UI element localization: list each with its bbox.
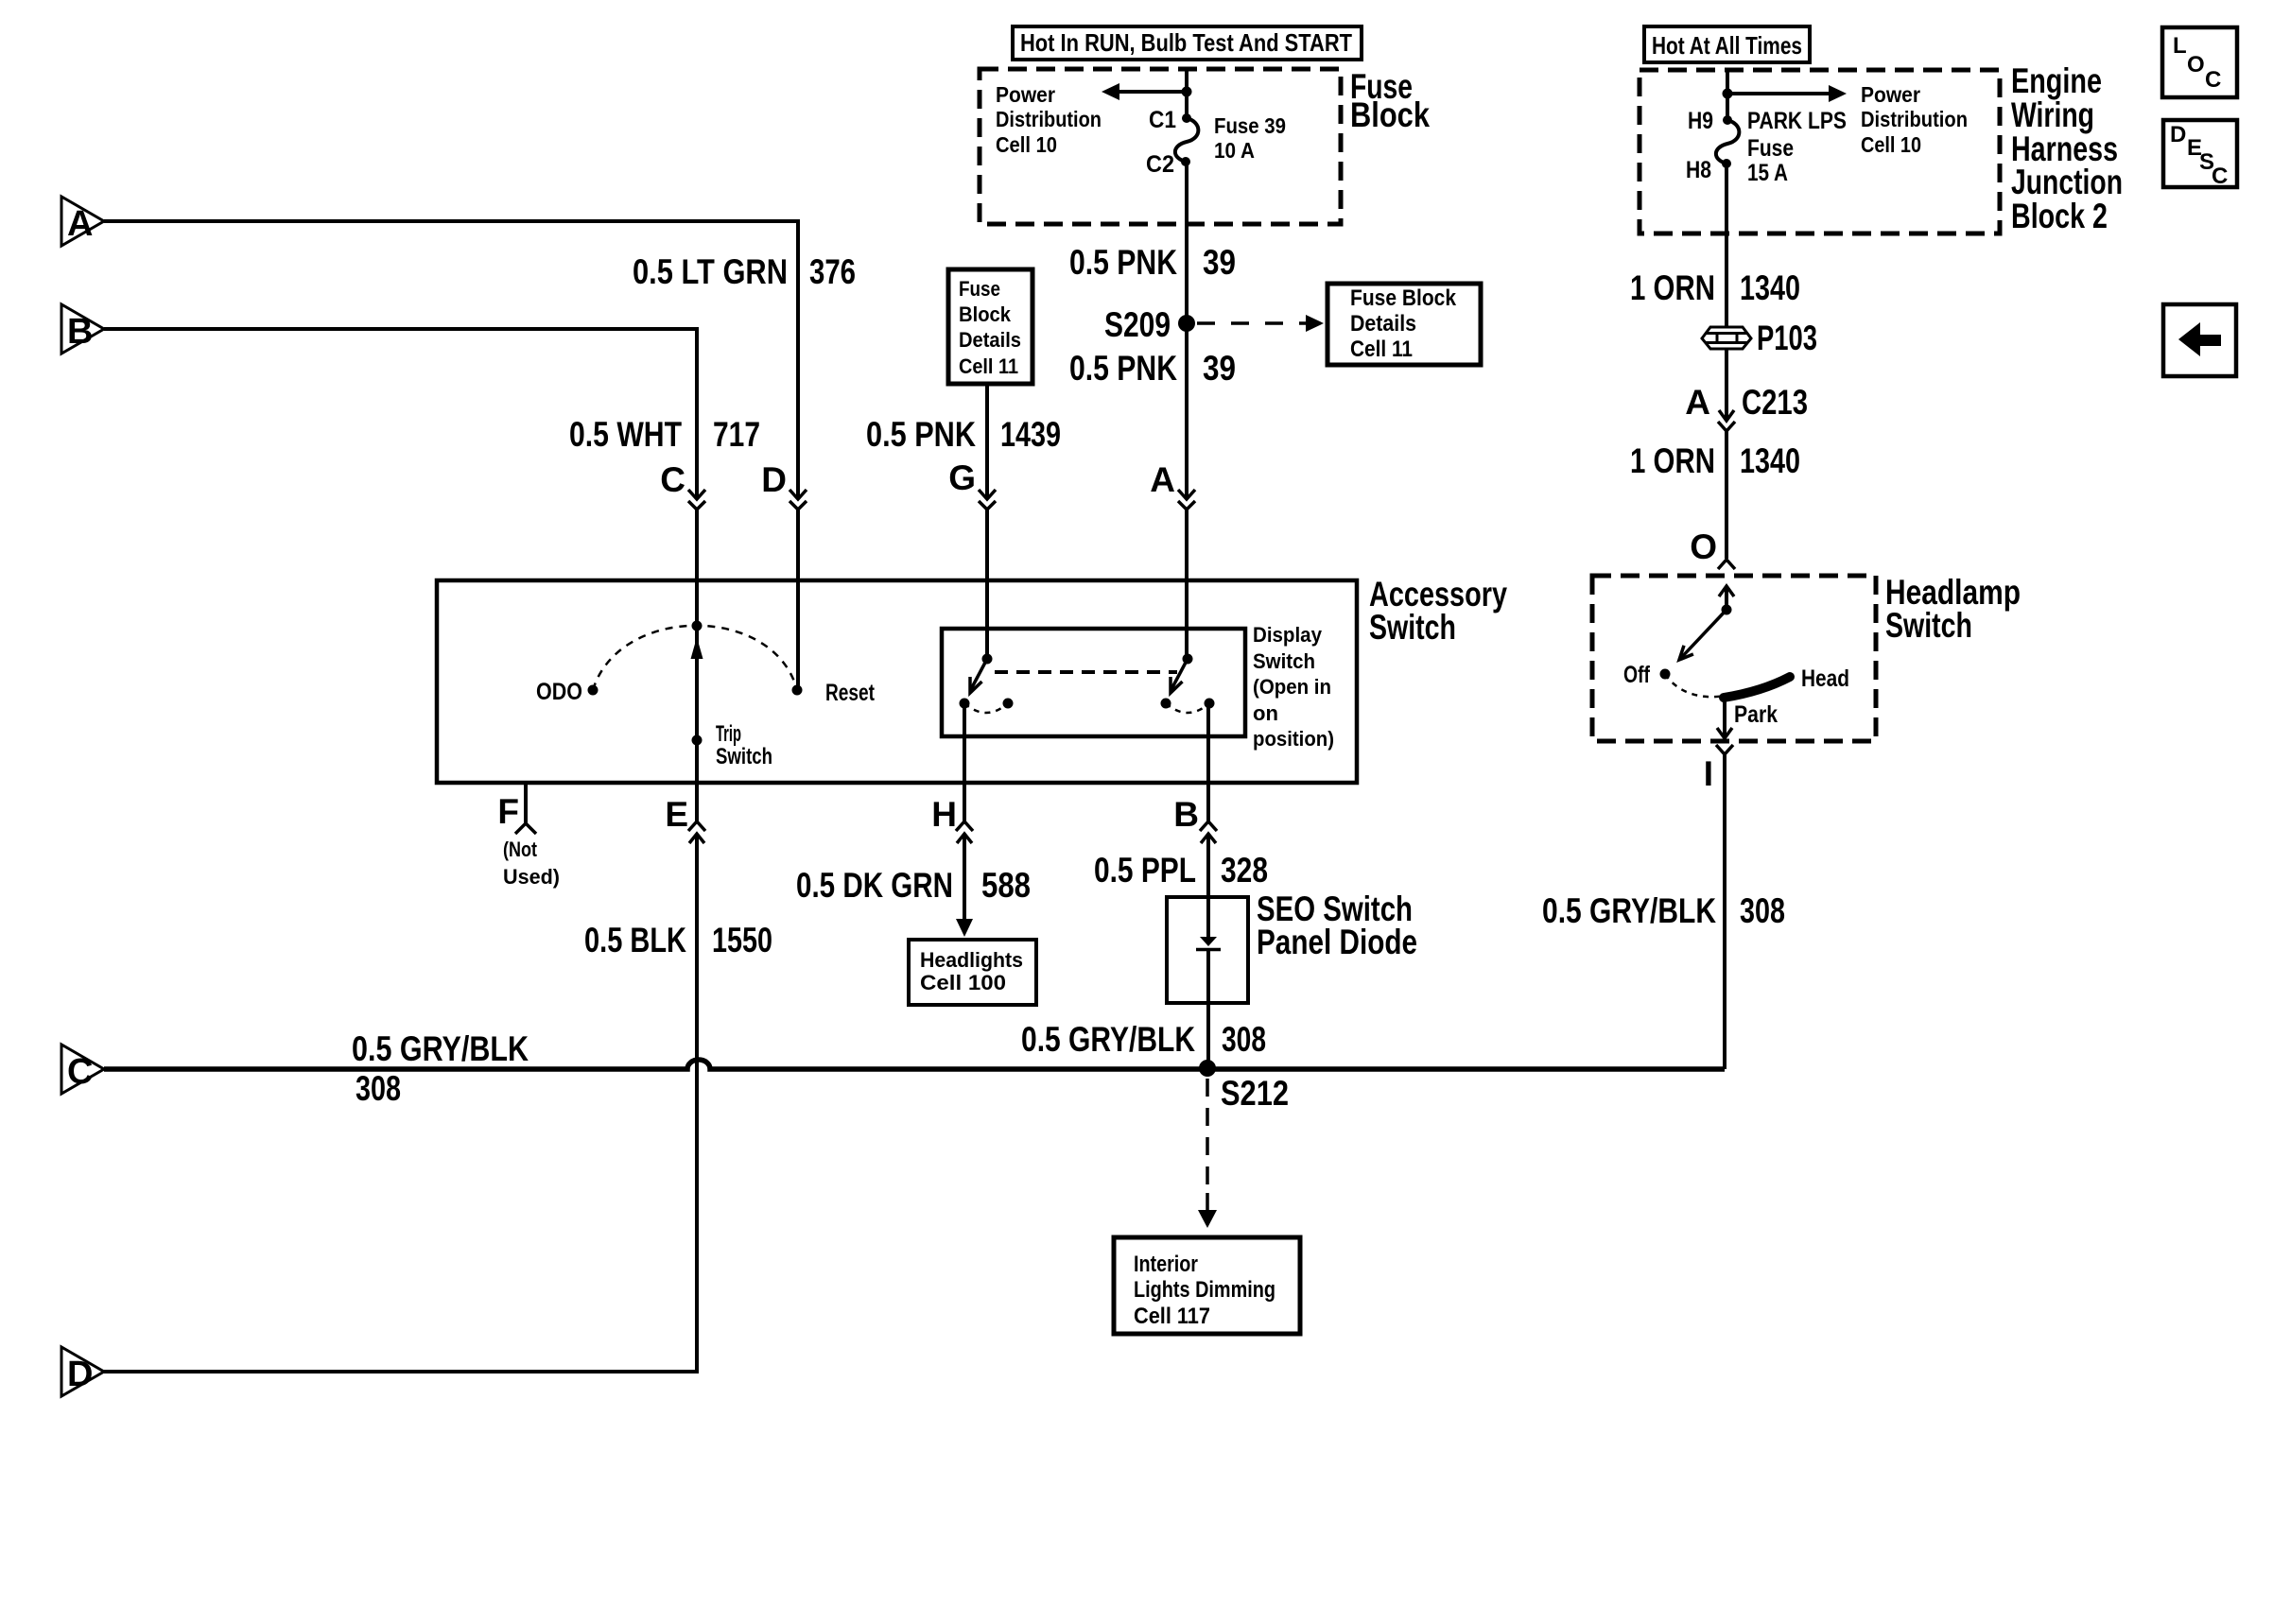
F chevron [515,823,536,834]
wire G into display switch left contact [985,510,989,657]
svg-text:C2: C2 [1146,151,1174,178]
wire B down from right contact [1206,703,1210,821]
svg-text:Fuse 39: Fuse 39 [1214,113,1286,138]
wire from details box down (G branch) [985,384,989,499]
svg-text:39: 39 [1203,243,1236,282]
wire diode to S212 [1206,949,1210,1068]
svg-text:Fuse Block: Fuse Block [1350,285,1457,311]
svg-text:C: C [660,460,685,499]
display switch left lower dots [960,699,970,709]
node S212 [1199,1060,1216,1077]
svg-text:Junction: Junction [2011,163,2123,201]
engine harness dashed box [1640,70,2000,233]
dashed arc Off to Park [1665,674,1725,697]
connector C213 marks [1719,410,1734,421]
svg-text:Interior: Interior [1134,1252,1198,1277]
svg-text:0.5 PPL: 0.5 PPL [1094,851,1196,890]
svg-text:Switch: Switch [1369,608,1456,647]
connector I chevron below headlamp box [1716,745,1733,754]
display switch inner box [942,629,1245,736]
headlamp switch dashed box [1592,576,1876,741]
wire 737 from E down to D corner [104,834,697,1372]
svg-text:B: B [67,312,93,352]
svg-text:G: G [948,458,976,497]
wire 844 into accessory box to Reset [796,510,800,686]
headlamp blade arrow to Off [1679,610,1726,660]
fuse wire top with junction and left arrow [1185,70,1189,118]
DESC box [2163,120,2237,187]
dashed arc left contact [964,703,1008,713]
connector E marks below accessory box [688,821,705,831]
trip switch up arrow on wire 737 [691,637,703,659]
svg-text:Head: Head [1801,665,1849,692]
connector A marks on fuse wire [1178,490,1195,499]
svg-text:308: 308 [1222,1020,1266,1059]
svg-text:0.5 PNK: 0.5 PNK [1069,349,1177,388]
fuse 39 element (S-curve) [1182,113,1191,123]
park wire down with arrow [1723,696,1726,738]
dashed arc ODO to Reset through node [593,626,797,690]
svg-text:C1: C1 [1149,107,1176,133]
svg-text:PARK LPS: PARK LPS [1747,108,1847,134]
svg-text:F: F [497,792,519,831]
svg-text:376: 376 [809,252,856,291]
arrow wire H to headlights box [963,834,966,919]
dashed arrow S209 to details box 2 [1197,321,1309,325]
display switch right blade arrow [1171,659,1188,691]
wire B into diode box [1206,834,1210,937]
svg-text:1340: 1340 [1740,268,1800,307]
svg-text:0.5 PNK: 0.5 PNK [866,415,976,454]
svg-text:Switch: Switch [1253,649,1315,673]
dashed arc right contact [1166,703,1209,713]
svg-text:Lights Dimming: Lights Dimming [1134,1277,1275,1303]
display switch right top contact dot [1183,654,1193,665]
svg-text:308: 308 [1740,891,1785,930]
wire fuse to S209 to A marks [1185,162,1189,499]
svg-text:Power: Power [996,82,1055,107]
svg-text:0.5 GRY/BLK: 0.5 GRY/BLK [352,1029,529,1068]
display switch left top contact dot [982,654,993,665]
svg-text:Engine: Engine [2011,61,2102,100]
up arrow into headlamp switch [1719,586,1734,596]
svg-text:Details: Details [1350,311,1416,337]
svg-text:Used): Used) [503,865,560,889]
LOC box [2162,27,2237,97]
svg-text:0.5 WHT: 0.5 WHT [569,415,682,454]
bold Head contact arc [1724,677,1790,698]
svg-text:Cell 11: Cell 11 [1350,337,1413,362]
svg-text:ODO: ODO [536,679,582,705]
interior lights dimming box [1114,1237,1300,1334]
svg-text:Park: Park [1734,701,1778,728]
svg-text:A: A [67,204,93,244]
svg-text:10 A: 10 A [1214,138,1255,163]
connector A (triangle) [61,197,104,246]
park lps fuse element [1723,115,1732,125]
svg-text:H: H [931,795,957,834]
back arrow box [2163,304,2236,376]
headlights box [909,940,1036,1005]
svg-text:S212: S212 [1221,1074,1289,1113]
dashed wire S212 down [1206,1079,1209,1193]
wire from A to vertical 844 [104,221,798,499]
display switch left blade arrow [970,659,987,691]
connector B marks [1200,821,1217,831]
svg-text:Hot In RUN, Bulb Test And STAR: Hot In RUN, Bulb Test And START [1020,28,1352,57]
headlamp pivot dot [1722,605,1732,615]
wire 737 into accessory box to node [695,510,699,624]
svg-text:Off: Off [1623,662,1651,688]
svg-text:H8: H8 [1686,157,1711,183]
svg-text:0.5 GRY/BLK: 0.5 GRY/BLK [1542,891,1716,930]
svg-text:Cell 117: Cell 117 [1134,1304,1210,1329]
svg-text:S209: S209 [1104,305,1171,344]
svg-text:I: I [1704,754,1713,793]
svg-text:Reset: Reset [825,680,876,706]
svg-text:Cell 10: Cell 10 [1861,132,1921,157]
svg-text:Distribution: Distribution [1861,107,1968,131]
svg-text:E: E [665,795,688,834]
svg-text:1439: 1439 [1000,415,1061,454]
svg-text:A: A [1685,383,1710,422]
svg-text:Details: Details [959,328,1021,352]
svg-text:Block: Block [959,302,1012,326]
svg-text:Switch: Switch [1885,606,1972,645]
svg-text:717: 717 [713,415,760,454]
svg-text:Wiring: Wiring [2011,95,2094,134]
svg-text:0.5 BLK: 0.5 BLK [584,921,686,959]
svg-text:A: A [1150,460,1175,499]
svg-text:on: on [1253,701,1278,725]
wire H down from left contact [963,703,966,821]
fuse block dashed box [980,69,1341,224]
svg-text:L: L [2173,33,2187,59]
Off dot [1660,669,1671,680]
svg-text:position): position) [1253,727,1334,751]
svg-text:H9: H9 [1688,108,1713,134]
svg-text:B: B [1173,795,1199,834]
svg-text:(Not: (Not [503,838,538,861]
display switch right lower dots [1161,699,1171,709]
svg-text:0.5 LT GRN: 0.5 LT GRN [633,252,788,291]
svg-text:Panel Diode: Panel Diode [1257,923,1417,961]
svg-text:1550: 1550 [712,921,772,959]
connector O chevron [1718,560,1735,569]
wire C213 to O terminal [1725,431,1728,559]
SEO diode box [1167,897,1248,1003]
dashed line between display switch blades [995,670,1177,674]
diode symbol [1200,937,1217,946]
connector G marks [979,490,996,499]
connector D (triangle) bottom left [61,1347,104,1396]
svg-text:0.5 DK GRN: 0.5 DK GRN [796,866,953,905]
svg-text:Hot At All Times: Hot At All Times [1652,31,1802,60]
horizontal wire from C triangle with hop, to right corner [104,1060,1725,1069]
svg-text:0.5 GRY/BLK: 0.5 GRY/BLK [1021,1020,1195,1059]
ODO dot [588,685,599,696]
svg-text:Distribution: Distribution [996,107,1102,131]
svg-text:D: D [761,460,787,499]
accessory switch box [437,580,1357,783]
svg-text:Power: Power [1861,82,1920,107]
svg-text:Trip: Trip [716,721,741,747]
wire top in engine box with junction [1726,70,1729,120]
svg-text:308: 308 [356,1069,401,1108]
back arrow icon [2178,322,2200,356]
wire P103 to C213 [1725,349,1728,421]
grommet P103 [1702,327,1751,349]
connector C (triangle) [61,1045,104,1094]
svg-text:C: C [2205,67,2221,93]
connector B (triangle) [61,304,104,354]
wire 737 node to trip dot to box bottom [695,626,699,821]
svg-text:Block: Block [1350,95,1430,134]
arrow right to power distribution [1727,92,1829,95]
svg-text:328: 328 [1221,851,1268,890]
svg-text:1 ORN: 1 ORN [1630,268,1715,307]
svg-text:0.5 PNK: 0.5 PNK [1069,243,1177,282]
connector C in-line marks on wire 737 [688,490,705,499]
hot at all times label box [1644,26,1810,62]
svg-text:D: D [67,1355,93,1394]
hot in run label box [1013,26,1362,60]
svg-text:Headlights: Headlights [920,948,1023,972]
Reset dot [792,685,803,696]
svg-text:O: O [1690,527,1717,566]
svg-text:Switch: Switch [716,744,772,769]
wire A into display switch right contact [1185,510,1189,657]
trip switch dot [692,735,703,746]
wire from B to vertical 737 [104,329,697,499]
svg-text:588: 588 [981,866,1031,905]
svg-text:Cell 10: Cell 10 [996,132,1057,157]
svg-text:Block 2: Block 2 [2011,197,2108,235]
node S209 [1178,315,1195,332]
node dot (trip switch top) [692,621,703,631]
svg-text:O: O [2187,52,2205,78]
svg-text:(Open in: (Open in [1253,675,1331,699]
connector D in-line marks on wire 844 [789,490,807,499]
wire H8 down to P103 [1725,164,1728,326]
F stub below accessory box [524,783,528,823]
svg-text:Fuse: Fuse [959,277,1000,301]
connector H marks [956,821,973,831]
svg-text:39: 39 [1203,349,1236,388]
svg-text:1 ORN: 1 ORN [1630,441,1715,480]
wire I down to corner joining horizontal wire [1723,754,1726,1069]
fuse block details box 2 [1327,284,1481,365]
svg-text:C: C [67,1052,93,1092]
svg-text:1340: 1340 [1740,441,1800,480]
svg-text:D: D [2170,122,2186,147]
svg-text:Fuse: Fuse [1747,135,1794,162]
svg-text:C: C [2212,164,2228,189]
svg-text:15 A: 15 A [1747,160,1788,186]
svg-text:P103: P103 [1757,319,1817,357]
svg-text:Cell 11: Cell 11 [959,354,1018,378]
fuse block details box 1 [948,269,1032,384]
svg-text:Cell 100: Cell 100 [920,971,1006,994]
svg-text:Display: Display [1253,623,1323,647]
svg-text:C213: C213 [1742,383,1808,422]
